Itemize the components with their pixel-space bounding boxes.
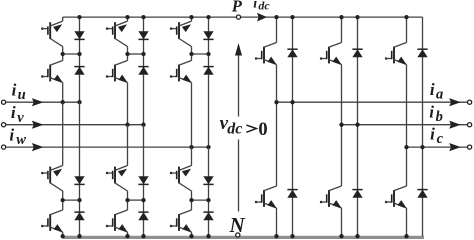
node leg un mid junctions xyxy=(61,198,82,202)
terminal output phase a xyxy=(468,100,472,104)
node output b taps xyxy=(339,123,359,127)
diode Dwn2 (points up) xyxy=(203,212,213,220)
transistor Sa- (igbt low side) xyxy=(255,186,277,208)
transistor Sun2 (igbt, emitter down) xyxy=(41,210,63,232)
transistor Swp1 (igbt, emitter up) xyxy=(170,21,192,46)
svg-text:dc: dc xyxy=(227,120,242,137)
wire leg vn mid cross link xyxy=(128,199,144,201)
label i_a xyxy=(430,80,443,103)
svg-text:i: i xyxy=(12,81,17,100)
diode Dvn2 (points up) xyxy=(138,212,148,220)
node leg vn mid junctions xyxy=(125,198,145,202)
wire leg c igbt-string segments xyxy=(406,17,408,236)
wire output line phase c xyxy=(407,146,469,148)
node output a taps xyxy=(274,100,294,104)
wire leg up mid cross link xyxy=(63,53,80,55)
wire leg up igbt-string segments xyxy=(62,17,64,102)
wire leg a igbt-string segments xyxy=(276,17,278,236)
node P rail tap of leg b diode xyxy=(355,15,359,19)
wire P rail (positive dc bus) xyxy=(63,16,423,18)
transistor Swn2 (igbt, emitter down) xyxy=(170,210,192,232)
node N rail taps of leg wn xyxy=(189,234,210,238)
label i_b xyxy=(429,102,443,125)
arrow output current i_c xyxy=(449,143,461,151)
diode Db+ (freewheel, points up) xyxy=(352,49,362,57)
wire leg up diode-string xyxy=(79,17,81,102)
diode Dvp1 (points down) xyxy=(138,31,148,39)
wire input line phase w xyxy=(6,146,208,148)
terminal output phase b xyxy=(468,123,472,127)
svg-text:i: i xyxy=(9,126,14,145)
wire leg vp mid cross link xyxy=(128,53,144,55)
wire leg un igbt-string segments xyxy=(62,102,64,236)
svg-text:v: v xyxy=(17,110,24,126)
node P rail tap of leg vp diode-string xyxy=(141,15,145,19)
node N rail taps of leg un xyxy=(61,234,82,238)
node P rail tap of leg vp igbt-string xyxy=(125,15,129,19)
svg-text:N: N xyxy=(229,213,246,237)
diode Dun1 (points down) xyxy=(74,176,84,184)
svg-text:w: w xyxy=(16,132,26,148)
svg-text:i: i xyxy=(253,0,257,12)
node P rail tap of leg a igbt xyxy=(274,15,278,19)
node P rail tap of leg up diode-string xyxy=(77,15,81,19)
wire leg b igbt-string segments xyxy=(341,17,343,236)
transistor Sc+ (igbt high side) xyxy=(385,43,407,65)
transistor Svn2 (igbt, emitter down) xyxy=(106,210,128,232)
node phase w line taps xyxy=(189,145,210,149)
label N xyxy=(229,213,246,237)
svg-text:a: a xyxy=(436,86,443,102)
arrow output current i_b xyxy=(449,121,461,129)
transistor Sb- (igbt low side) xyxy=(320,186,342,208)
node N rail taps of leg vn xyxy=(125,234,145,238)
wire input line phase v xyxy=(6,124,143,126)
wire leg vp diode-string xyxy=(143,17,145,125)
node P rail tap of leg c igbt xyxy=(404,15,408,19)
label i_v xyxy=(11,103,24,126)
label P xyxy=(231,0,243,16)
node N rail taps of leg b xyxy=(339,234,359,238)
wire leg wn igbt-string segments xyxy=(191,147,193,236)
arrow v_dc (voltage arrow pointing up) xyxy=(235,43,242,212)
arrow output current i_a xyxy=(449,98,461,106)
transistor Swn1 (igbt, emitter up) xyxy=(170,166,192,192)
svg-text:u: u xyxy=(18,87,26,103)
arrow input current i_w xyxy=(32,143,44,151)
arrow input current i_u xyxy=(32,98,44,106)
diode Dun2 (points up) xyxy=(74,212,84,220)
node leg up mid junctions xyxy=(61,52,82,56)
svg-text:c: c xyxy=(437,131,444,147)
transistor Sup1 (igbt, emitter up) xyxy=(41,21,63,46)
wire leg b diode-string xyxy=(357,17,359,236)
transistor Swp2 (igbt, emitter down) xyxy=(170,61,192,83)
transistor Svn1 (igbt, emitter up) xyxy=(106,166,128,192)
node P rail tap of leg wp diode-string xyxy=(206,15,210,19)
label i_w xyxy=(9,126,26,149)
terminal input phase w xyxy=(2,145,6,149)
node N rail taps of leg c xyxy=(404,234,408,238)
transistor Svp1 (igbt, emitter up) xyxy=(106,21,128,46)
node P (open terminal on positive bus) xyxy=(236,15,240,19)
svg-text:0: 0 xyxy=(258,120,267,140)
wire leg wp igbt-string segments xyxy=(191,17,193,147)
terminal input phase u xyxy=(2,100,6,104)
node P rail tap of leg wp igbt-string xyxy=(189,15,193,19)
wire leg wp diode-string xyxy=(208,17,210,147)
diode Dc+ (freewheel, points up) xyxy=(417,49,427,57)
diode Da+ (freewheel, points up) xyxy=(287,49,297,57)
diode Db- (freewheel, points up) xyxy=(352,190,362,198)
transistor Sa+ (igbt high side) xyxy=(255,43,277,65)
wire N rail (negative dc bus bar) xyxy=(63,236,424,239)
node N rail taps of leg a xyxy=(274,234,294,238)
label i_c xyxy=(430,125,444,147)
svg-text:dc: dc xyxy=(258,0,270,13)
wire output line phase a xyxy=(277,101,469,103)
wire leg vn igbt-string segments xyxy=(127,125,129,237)
wire leg c diode-string xyxy=(422,17,424,236)
node leg wp mid junctions xyxy=(189,52,210,56)
svg-text:i: i xyxy=(429,102,434,121)
wire leg wn diode-string xyxy=(208,147,210,236)
terminal output phase c xyxy=(468,145,472,149)
wire leg vn diode-string xyxy=(143,125,145,237)
transistor Sup2 (igbt, emitter down) xyxy=(41,61,63,83)
wire leg wn mid cross link xyxy=(192,199,209,201)
label i_u xyxy=(12,81,26,104)
diode Dup1 (points down) xyxy=(74,31,84,39)
node leg vp mid junctions xyxy=(125,52,145,56)
diode Dvp2 (points up) xyxy=(138,67,148,75)
node output c taps xyxy=(404,145,424,149)
node phase v line taps xyxy=(125,123,145,127)
node leg wn mid junctions xyxy=(189,198,210,202)
svg-text:i: i xyxy=(430,80,435,99)
diode Dc- (freewheel, points up) xyxy=(417,190,427,198)
svg-text:i: i xyxy=(11,103,16,122)
wire leg un diode-string xyxy=(79,102,81,236)
transistor Svp2 (igbt, emitter down) xyxy=(106,61,128,83)
node phase u line taps xyxy=(61,100,82,104)
svg-text:b: b xyxy=(436,109,443,125)
terminal input phase v xyxy=(2,123,6,127)
diode Dvn1 (points down) xyxy=(138,176,148,184)
node N (open terminal on negative bus) xyxy=(236,233,240,237)
node P rail tap of leg b igbt xyxy=(339,15,343,19)
diode Da- (freewheel, points up) xyxy=(287,190,297,198)
wire input line phase u xyxy=(6,101,79,103)
diode Dwn1 (points down) xyxy=(203,176,213,184)
label v_dc > 0 xyxy=(220,113,268,140)
wire leg wp mid cross link xyxy=(192,53,209,55)
transistor Sc- (igbt low side) xyxy=(385,186,407,208)
wire leg a diode-string xyxy=(292,17,294,236)
diode Dup2 (points up) xyxy=(74,67,84,75)
label i_dc xyxy=(253,0,270,13)
wire leg un mid cross link xyxy=(63,199,80,201)
transistor Sb+ (igbt high side) xyxy=(320,43,342,65)
arrow input current i_v xyxy=(32,121,44,129)
diode Dwp1 (points down) xyxy=(203,31,213,39)
transistor Sun1 (igbt, emitter up) xyxy=(41,166,63,192)
arrow i_dc on P rail xyxy=(257,13,267,22)
wire output line phase b xyxy=(342,124,469,126)
svg-text:i: i xyxy=(430,125,435,144)
wire leg vp igbt-string segments xyxy=(127,17,129,125)
svg-text:P: P xyxy=(231,0,243,16)
node P rail tap of leg a diode xyxy=(290,15,294,19)
diode Dwp2 (points up) xyxy=(203,67,213,75)
